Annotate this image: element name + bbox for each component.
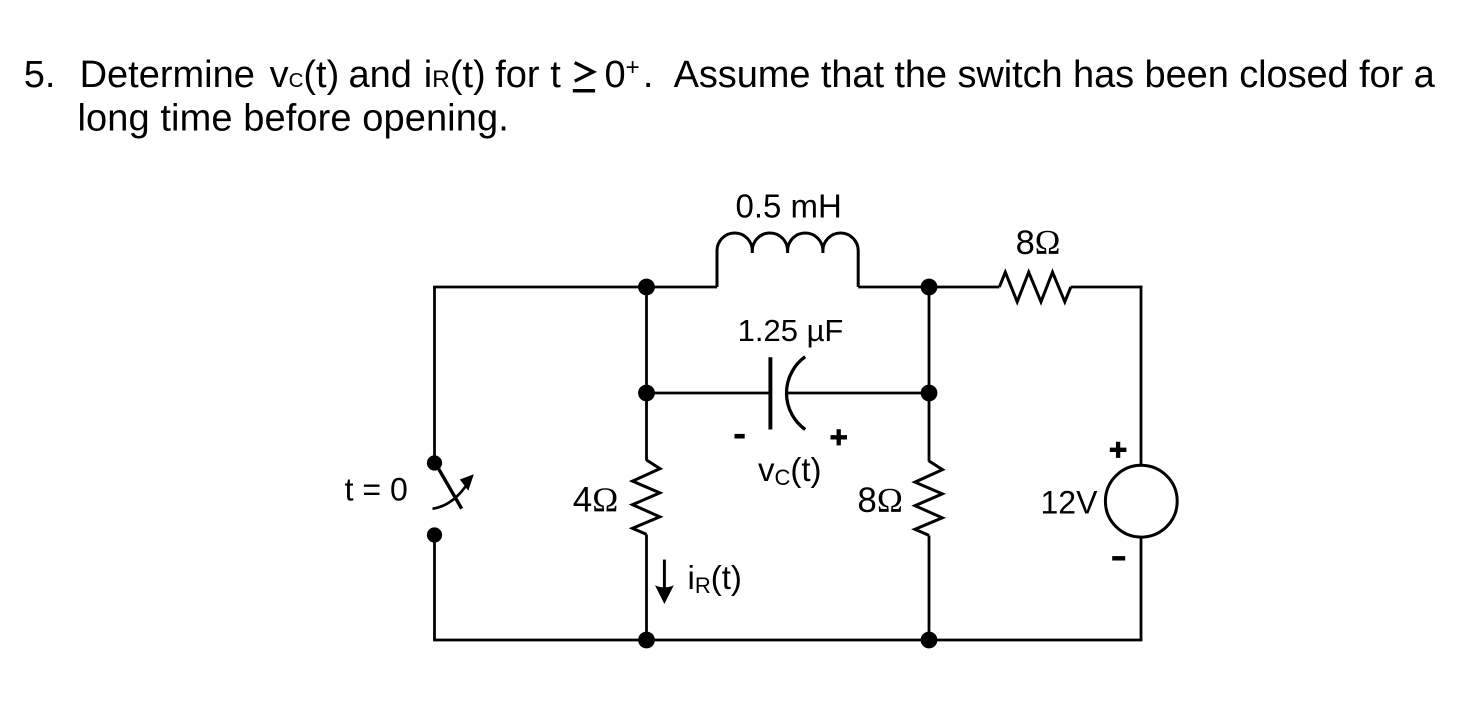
capacitor plus sign xyxy=(831,429,848,445)
wire top horizontal left (corner to inductor) xyxy=(433,286,717,289)
source minus sign xyxy=(1112,556,1125,560)
wire top horizontal right (inductor to right corner) xyxy=(858,286,999,289)
node B3 (bottom wire, column B) xyxy=(921,632,938,649)
wire bottom horizontal xyxy=(433,639,1142,642)
wire right vertical upper (corner to 12V source) xyxy=(1140,286,1143,466)
svg-text:long time before opening.: long time before opening. xyxy=(78,97,509,139)
capacitor minus sign xyxy=(735,434,745,439)
wire column A middle (middle node to 4ohm resistor) xyxy=(645,393,648,461)
svg-text:12V: 12V xyxy=(1041,485,1099,521)
wire column B upper (top node to middle node) xyxy=(928,287,931,393)
svg-text:8Ω: 8Ω xyxy=(857,481,902,520)
current arrow iR(t) xyxy=(655,560,674,604)
source plus sign xyxy=(1110,442,1127,458)
svg-text:4Ω: 4Ω xyxy=(573,480,618,519)
svg-text:8Ω: 8Ω xyxy=(1016,224,1061,262)
problem statement line 1 xyxy=(24,54,1436,96)
svg-text:iR(t): iR(t) xyxy=(688,559,742,598)
node B2 (middle row, column B) xyxy=(921,385,938,402)
svg-text:vC(t): vC(t) xyxy=(758,451,822,490)
resistor R1 4 ohm (vertical) xyxy=(633,460,661,534)
problem statement line 2 xyxy=(78,97,509,139)
wire column B lower (8ohm resistor to bottom node) xyxy=(928,536,931,641)
svg-text:0+.: 0+. xyxy=(605,54,654,96)
svg-text:Assume that the switch has bee: Assume that the switch has been closed f… xyxy=(674,54,1436,96)
inductor L1 0.5 mH xyxy=(717,233,858,287)
svg-text:t = 0: t = 0 xyxy=(345,472,408,508)
svg-text:5.: 5. xyxy=(24,54,56,96)
svg-text:Determine: Determine xyxy=(80,54,255,96)
svg-text:vC(t): vC(t) xyxy=(270,54,340,96)
wire middle row left (node A2 to capacitor) xyxy=(647,392,771,395)
svg-text:1.25 µF: 1.25 µF xyxy=(738,313,844,348)
svg-text:0.5 mH: 0.5 mH xyxy=(736,188,842,225)
svg-text:for: for xyxy=(495,54,540,96)
node B1 (top wire, column B) xyxy=(921,279,938,296)
capacitor C1 1.25 uF xyxy=(770,357,805,430)
switch SW1 t=0 xyxy=(427,455,474,542)
resistor R3 8 ohm (horizontal, top right) xyxy=(999,272,1070,302)
voltage source V1 12V xyxy=(1105,465,1177,537)
node A3 (bottom wire, column A) xyxy=(638,632,655,649)
wire column A upper (top node to middle node) xyxy=(645,287,648,393)
wire column A lower (4ohm resistor to bottom node) xyxy=(645,535,648,641)
svg-text:t: t xyxy=(550,54,561,96)
node A1 (top wire, column A) xyxy=(638,279,655,296)
node A2 (middle row, column A) xyxy=(638,385,655,402)
resistor R2 8 ohm (vertical) xyxy=(915,461,943,535)
wire middle row right (capacitor to node B2) xyxy=(788,392,930,395)
wire column B middle (middle node to 8ohm resistor) xyxy=(928,393,931,462)
wire left vertical upper (top-left corner down to switch) xyxy=(433,287,436,456)
svg-text:iR(t): iR(t) xyxy=(424,54,486,96)
wire right vertical lower (12V source to bottom corner) xyxy=(1140,537,1143,640)
wire left vertical lower (switch to bottom-left corner) xyxy=(433,542,436,640)
wire top horizontal after 8ohm resistor xyxy=(1071,286,1143,289)
svg-text:and: and xyxy=(349,54,412,96)
